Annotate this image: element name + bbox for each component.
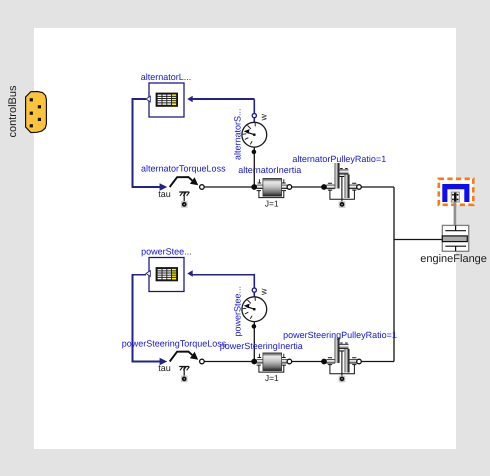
- svg-text:w: w: [259, 288, 269, 296]
- wire node to engineFlange: [394, 239, 442, 241]
- svg-text:alternatorTorqueLoss: alternatorTorqueLoss: [141, 164, 226, 174]
- svg-text:alternatorS...: alternatorS...: [233, 108, 243, 160]
- wire vertical belt node: [393, 187, 395, 362]
- wire powerSteeringLoad.y to powerSteeringTorqueLoss.tau: [133, 275, 161, 362]
- svg-text:J=1: J=1: [265, 373, 279, 383]
- wire powerSteeringSpeedSensor.w to powerSteeringLoad.u: [193, 274, 255, 276]
- wire alternatorTorqueLoss.flange to alternatorInertia.flange_a: [204, 186, 252, 188]
- svg-text:tau: tau: [158, 189, 171, 199]
- table block alternatorLoad: [146, 83, 193, 117]
- wire alternatorLoad.y to alternatorTorqueLoss.tau: [133, 99, 161, 187]
- engine mount (conditional, orange dashed): [439, 179, 474, 205]
- svg-text:powerSteeringTorqueLoss: powerSteeringTorqueLoss: [122, 338, 227, 348]
- controlBus pins: [30, 98, 41, 127]
- svg-text:alternatorL...: alternatorL...: [141, 72, 192, 82]
- torque source powerSteeringTorqueLoss: [160, 352, 205, 383]
- mount small flange: [451, 192, 459, 202]
- wire alternatorPulleyRatio.flange_b to node engine: [361, 186, 394, 188]
- svg-text:powerSteeringPulleyRatio=1: powerSteeringPulleyRatio=1: [283, 330, 397, 340]
- svg-text:powerStee...: powerStee...: [141, 247, 192, 257]
- svg-text:w: w: [259, 114, 269, 122]
- svg-text:powerSteeringInertia: powerSteeringInertia: [220, 341, 303, 351]
- speed sensor alternatorSpeedSensor: [242, 99, 267, 187]
- wire alternatorSpeedSensor.w to alternatorLoad.u: [193, 98, 255, 100]
- svg-text:controlBus: controlBus: [7, 85, 19, 137]
- svg-text:alternatorPulleyRatio=1: alternatorPulleyRatio=1: [292, 154, 386, 164]
- controlBus connector: [26, 92, 47, 133]
- inertia alternatorInertia: [251, 178, 291, 197]
- mount shaft (gray): [454, 202, 457, 226]
- svg-text:engineFlange: engineFlange: [420, 253, 487, 265]
- speed sensor powerSteeringSpeedSensor: [242, 274, 267, 362]
- svg-text:J=1: J=1: [265, 199, 279, 209]
- wire powerSteeringInertia.flange_b to powerSteeringPulleyRatio.flange_a: [292, 361, 322, 363]
- svg-text:alternatorInertia: alternatorInertia: [238, 165, 301, 175]
- table block powerSteeringLoad: [146, 258, 193, 292]
- mount blue bracket: [442, 184, 469, 202]
- wire powerSteeringTorqueLoss.flange to powerSteeringInertia.flange_a: [204, 361, 252, 363]
- ideal gear alternatorPulleyRatio: [321, 163, 361, 208]
- svg-text:powerStee...: powerStee...: [233, 286, 243, 337]
- wire powerSteeringPulleyRatio.flange_b to node engine: [361, 361, 394, 363]
- connector engineFlange: [442, 225, 468, 251]
- torque source alternatorTorqueLoss: [160, 177, 205, 208]
- svg-text:tau: tau: [158, 363, 171, 373]
- ideal gear powerSteeringPulleyRatio: [321, 338, 361, 383]
- wire alternatorInertia.flange_b to alternatorPulleyRatio.flange_a: [292, 186, 322, 188]
- inertia powerSteeringInertia: [251, 353, 291, 372]
